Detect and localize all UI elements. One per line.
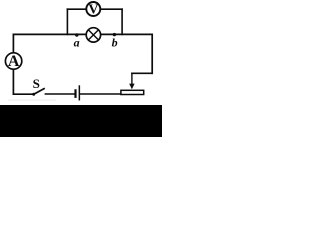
node a (dot) — [75, 33, 78, 36]
ammeter A — [5, 53, 21, 70]
wire: voltmeter branch right vertical — [121, 8, 123, 35]
switch S — [32, 76, 45, 96]
lamp — [86, 28, 100, 42]
scan artifact faint line — [8, 100, 56, 101]
black bottom bar — [0, 105, 162, 137]
wire: voltmeter branch left horizontal — [67, 8, 87, 10]
wire: top main horizontal (a-b line) — [13, 33, 153, 35]
svg-text:b: b — [112, 36, 118, 50]
wire: bottom left horizontal to switch — [13, 93, 33, 95]
wire: left vertical from top wire to ammeter — [12, 34, 14, 53]
battery — [74, 85, 80, 100]
node b (dot) — [113, 33, 116, 36]
svg-text:a: a — [74, 36, 80, 50]
wire: bottom horizontal from battery to rheostat — [80, 93, 122, 95]
rheostat wiper arrow — [129, 73, 134, 90]
svg-text:V: V — [88, 3, 98, 18]
svg-text:A: A — [8, 53, 20, 70]
wire: bottom horizontal from switch to battery — [45, 93, 75, 95]
wire: right vertical — [151, 34, 153, 75]
svg-text:S: S — [33, 76, 40, 91]
wire: voltmeter branch right horizontal — [100, 8, 123, 10]
voltmeter V — [86, 2, 100, 18]
wire: left vertical from ammeter down to bottom wire — [12, 69, 14, 95]
wire: jog horizontal from wiper to right vertical — [131, 72, 153, 74]
rheostat R (slide resistor box) — [121, 90, 144, 94]
wire: voltmeter branch left vertical — [66, 8, 68, 35]
